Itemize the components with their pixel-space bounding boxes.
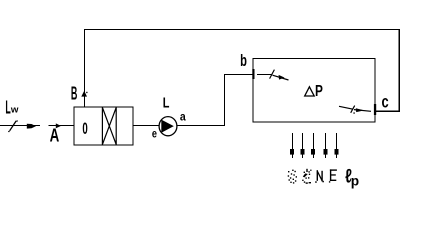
wire Lw inlet segment 2: [49, 125, 75, 127]
wire unit to fan: [133, 125, 160, 127]
solid flow arrow on Lw wire: [27, 124, 36, 129]
delta-P label: triangle: [305, 87, 315, 96]
flow arrowhead at node A: [56, 123, 61, 128]
svg-text:L: L: [163, 94, 170, 111]
arrow flow-up at B riser: [81, 91, 87, 97]
room enclosure box: [253, 59, 375, 123]
svg-text:e: e: [152, 128, 157, 140]
heat exchanger / filter X-section: [102, 107, 116, 145]
caption glyph 1 (shen): [288, 170, 297, 184]
flow arrow into room at b: [273, 75, 289, 80]
leakage arrow 3: [311, 133, 315, 158]
wire Lw inlet segment 1: [0, 125, 40, 127]
measuring slash at b stub: [270, 70, 275, 79]
svg-text:a: a: [180, 111, 186, 124]
svg-text:c: c: [382, 93, 390, 112]
inlet terminal tick at b: [252, 69, 254, 79]
wire c tap to riser: [375, 110, 400, 112]
outlet wire inside room toward c: [339, 106, 353, 109]
caption glyph 4 (liang): [329, 169, 337, 182]
leakage arrow 2: [301, 133, 305, 158]
svg-text:B: B: [71, 84, 78, 104]
svg-text:P: P: [315, 81, 323, 99]
svg-text:0: 0: [82, 120, 87, 138]
fan impeller triangle: [161, 120, 174, 133]
break slash on Lw wire: [10, 121, 17, 131]
wire fan to room riser: [177, 75, 253, 126]
svg-text:w: w: [10, 104, 19, 115]
flow arrow toward c: [354, 110, 371, 112]
caption glyph 3 (feng): [315, 170, 324, 183]
air handling unit box: [74, 107, 133, 145]
svg-text:A: A: [50, 126, 60, 147]
leakage arrow 4: [324, 133, 328, 158]
wire top duct loop: B riser, top run, c riser: [85, 30, 400, 112]
caption glyph 2 (tou): [302, 169, 311, 184]
inlet stub wire inside room: [257, 74, 272, 76]
leakage arrow 1: [290, 133, 294, 158]
svg-text:b: b: [240, 52, 247, 71]
measuring slash at c stub: [351, 106, 355, 113]
outlet terminal tick at c: [374, 104, 376, 115]
leakage arrow 5: [335, 133, 339, 158]
fan/pump circle: [159, 117, 177, 136]
svg-text:p: p: [351, 174, 359, 189]
